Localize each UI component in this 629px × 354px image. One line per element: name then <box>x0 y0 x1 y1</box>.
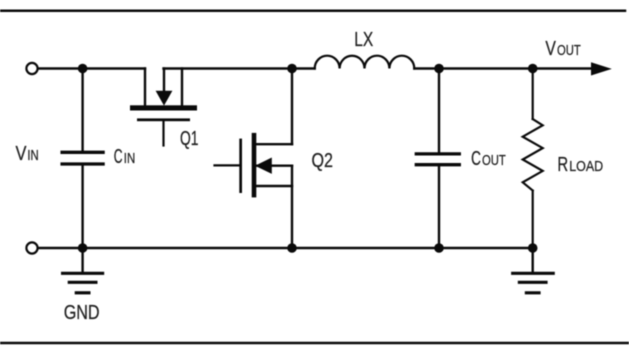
input terminal bottom (VIN-) <box>26 242 37 253</box>
capacitor CIN <box>62 69 103 249</box>
wire top rail left <box>38 67 145 69</box>
wire switch node to Q2 drain <box>291 69 293 145</box>
ground symbol right <box>513 248 554 293</box>
inductor LX <box>315 56 415 69</box>
node CIN bottom junction <box>78 243 88 253</box>
frame bottom border <box>0 342 628 344</box>
svg-text:Q2: Q2 <box>312 150 334 172</box>
svg-text:Q1: Q1 <box>180 128 199 150</box>
node COUT bottom junction <box>434 243 444 253</box>
node Q2 source junction <box>287 243 297 253</box>
frame top border <box>1 9 625 12</box>
node RLOAD bottom junction <box>528 243 538 253</box>
input terminal top (VIN+) <box>26 63 37 74</box>
transistor Q1 <box>130 69 197 146</box>
capacitor COUT <box>416 69 459 249</box>
VOUT arrowhead <box>591 62 612 75</box>
resistor RLOAD <box>523 69 543 249</box>
svg-text:LX: LX <box>354 29 373 51</box>
node CIN top junction <box>78 64 88 74</box>
svg-text:GND: GND <box>64 302 100 324</box>
ground symbol left <box>63 248 103 293</box>
transistor Q2 <box>215 133 293 248</box>
wire top rail middle <box>164 67 315 69</box>
wire top rail right <box>414 67 594 69</box>
node COUT top junction <box>434 64 444 74</box>
node RLOAD top junction <box>528 64 538 74</box>
wire bottom rail <box>38 247 533 249</box>
node LX switch junction <box>287 64 297 74</box>
